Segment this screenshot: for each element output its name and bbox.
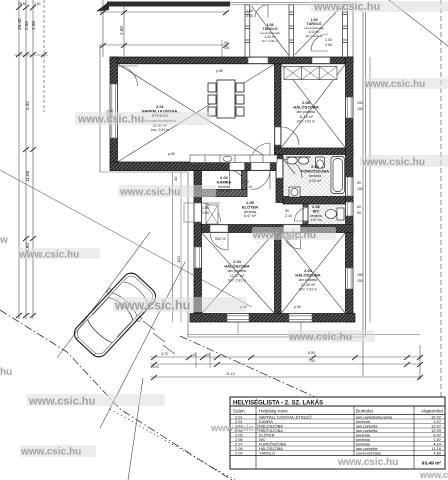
svg-text:60: 60 bbox=[357, 205, 361, 209]
svg-text:90/2.10: 90/2.10 bbox=[215, 237, 226, 241]
svg-text:bm= 2.26 m: bm= 2.26 m bbox=[306, 34, 323, 38]
svg-text:p.60: p.60 bbox=[168, 152, 175, 156]
svg-text:HÁLÓSZOBA: HÁLÓSZOBA bbox=[293, 105, 318, 110]
svg-text:12.07 m²: 12.07 m² bbox=[230, 274, 245, 278]
svg-text:HÁLÓSZOBA: HÁLÓSZOBA bbox=[295, 273, 320, 278]
svg-text:ELŐTÉR: ELŐTÉR bbox=[242, 204, 258, 209]
svg-text:4.24 m²: 4.24 m² bbox=[309, 179, 322, 183]
svg-text:2.10: 2.10 bbox=[245, 185, 252, 189]
svg-text:bm= 2.81 m: bm= 2.81 m bbox=[151, 128, 169, 132]
svg-text:hu: hu bbox=[0, 367, 12, 378]
svg-text:8.50: 8.50 bbox=[308, 351, 315, 355]
svg-text:www.csic.hu: www.csic.hu bbox=[288, 331, 352, 343]
svg-text:HELYISÉGLISTA - 2. SZ. LAKÁS: HELYISÉGLISTA - 2. SZ. LAKÁS bbox=[233, 399, 323, 407]
svg-text:10: 10 bbox=[192, 353, 196, 357]
svg-text:2.60: 2.60 bbox=[325, 43, 332, 47]
svg-text:90: 90 bbox=[285, 209, 289, 213]
svg-text:HÁLÓSZOBA: HÁLÓSZOBA bbox=[224, 264, 249, 269]
svg-text:1.00: 1.00 bbox=[325, 38, 332, 42]
svg-text:11.16 m²: 11.16 m² bbox=[299, 115, 314, 119]
svg-text:www.csic.hu: www.csic.hu bbox=[337, 457, 398, 468]
svg-text:bm= 2.81 m: bm= 2.81 m bbox=[262, 39, 279, 43]
svg-text:2.50: 2.50 bbox=[34, 2, 41, 6]
svg-text:40: 40 bbox=[173, 176, 178, 181]
svg-text:bm= 2.81 m: bm= 2.81 m bbox=[299, 287, 317, 291]
svg-text:w: w bbox=[0, 235, 8, 246]
svg-text:2.60: 2.60 bbox=[246, 14, 253, 18]
svg-text:FÜRDŐSZOBA: FÜRDŐSZOBA bbox=[301, 169, 329, 174]
svg-text:3.07 m²: 3.07 m² bbox=[218, 189, 231, 193]
svg-text:www.csic.hu: www.csic.hu bbox=[119, 187, 180, 198]
svg-text:lam.parketta: lam.parketta bbox=[299, 278, 318, 282]
svg-text:lam.parketta: lam.parketta bbox=[297, 110, 316, 114]
svg-text:www.csic.hu: www.csic.hu bbox=[313, 1, 380, 13]
svg-text:www.csic.hu: www.csic.hu bbox=[28, 396, 95, 408]
svg-text:p.60: p.60 bbox=[294, 305, 301, 309]
svg-text:7.40: 7.40 bbox=[308, 359, 315, 363]
svg-text:±0.00: ±0.00 bbox=[151, 365, 159, 369]
svg-text:Burkolat: Burkolat bbox=[356, 409, 374, 414]
svg-text:150: 150 bbox=[357, 107, 363, 111]
svg-text:2.09: 2.09 bbox=[235, 450, 243, 455]
svg-text:www.csic.hu: www.csic.hu bbox=[114, 299, 190, 313]
svg-text:60: 60 bbox=[357, 211, 361, 215]
svg-text:p.60: p.60 bbox=[216, 69, 223, 73]
svg-text:150: 150 bbox=[357, 273, 363, 277]
svg-text:1.00: 1.00 bbox=[246, 9, 253, 13]
svg-text:2.10: 2.10 bbox=[285, 214, 292, 218]
svg-text:www.csic.hu: www.csic.hu bbox=[77, 114, 144, 126]
svg-text:2.50: 2.50 bbox=[119, 26, 124, 35]
svg-text:30: 30 bbox=[206, 353, 210, 357]
svg-text:www.csic.hu: www.csic.hu bbox=[20, 447, 81, 458]
svg-text:www.csic.hu: www.csic.hu bbox=[18, 250, 79, 261]
svg-text:150: 150 bbox=[357, 187, 363, 191]
svg-text:WC: WC bbox=[313, 208, 320, 213]
svg-text:11.12: 11.12 bbox=[226, 372, 235, 376]
svg-text:90: 90 bbox=[224, 41, 228, 45]
svg-text:90: 90 bbox=[357, 181, 361, 185]
svg-text:lam.parketta: lam.parketta bbox=[228, 269, 247, 273]
svg-text:11.66: 11.66 bbox=[25, 170, 30, 182]
svg-text:Helyiség neve: Helyiség neve bbox=[259, 409, 288, 414]
svg-text:2.80: 2.80 bbox=[24, 21, 29, 30]
svg-text:4.80: 4.80 bbox=[433, 450, 441, 455]
svg-text:150: 150 bbox=[357, 101, 363, 105]
svg-text:93,49 m²: 93,49 m² bbox=[422, 461, 442, 467]
svg-text:3.70: 3.70 bbox=[161, 352, 168, 356]
svg-text:www.csic.hu: www.csic.hu bbox=[361, 156, 425, 168]
svg-text:90: 90 bbox=[245, 180, 249, 184]
svg-text:www.csic.hu: www.csic.hu bbox=[364, 79, 425, 90]
svg-text:5.92: 5.92 bbox=[25, 101, 30, 110]
svg-text:Szám: Szám bbox=[233, 409, 245, 414]
svg-text:150: 150 bbox=[357, 279, 363, 283]
svg-text:kerámia: kerámia bbox=[244, 210, 256, 214]
svg-text:bm= 2.81 m: bm= 2.81 m bbox=[228, 278, 246, 282]
svg-text:TÁROLÓ: TÁROLÓ bbox=[259, 450, 275, 455]
svg-text:bm= 2.81 m: bm= 2.81 m bbox=[297, 119, 315, 123]
svg-text:www.c: www.c bbox=[419, 470, 448, 480]
svg-text:www.csic.hu: www.csic.hu bbox=[252, 229, 316, 241]
svg-text:150: 150 bbox=[224, 46, 230, 50]
svg-text:2.50: 2.50 bbox=[31, 21, 36, 30]
svg-text:kerámia: kerámia bbox=[218, 185, 230, 189]
svg-text:12.09 m²: 12.09 m² bbox=[301, 283, 316, 287]
svg-text:cementsimítás: cementsimítás bbox=[356, 450, 381, 455]
svg-text:www.csic.hu: www.csic.hu bbox=[210, 423, 268, 434]
svg-text:1.87 m²: 1.87 m² bbox=[310, 218, 322, 222]
svg-text:28.40: 28.40 bbox=[17, 18, 22, 30]
svg-text:150: 150 bbox=[176, 256, 181, 263]
svg-text:6.47 m²: 6.47 m² bbox=[244, 214, 257, 218]
svg-text:1.00: 1.00 bbox=[202, 206, 209, 210]
svg-text:2.60: 2.60 bbox=[202, 211, 209, 215]
svg-text:Alapterület: Alapterület bbox=[421, 409, 444, 414]
svg-text:28.40: 28.40 bbox=[18, 2, 26, 6]
svg-text:KAMRA: KAMRA bbox=[217, 179, 232, 184]
svg-text:kerámia: kerámia bbox=[309, 174, 321, 178]
